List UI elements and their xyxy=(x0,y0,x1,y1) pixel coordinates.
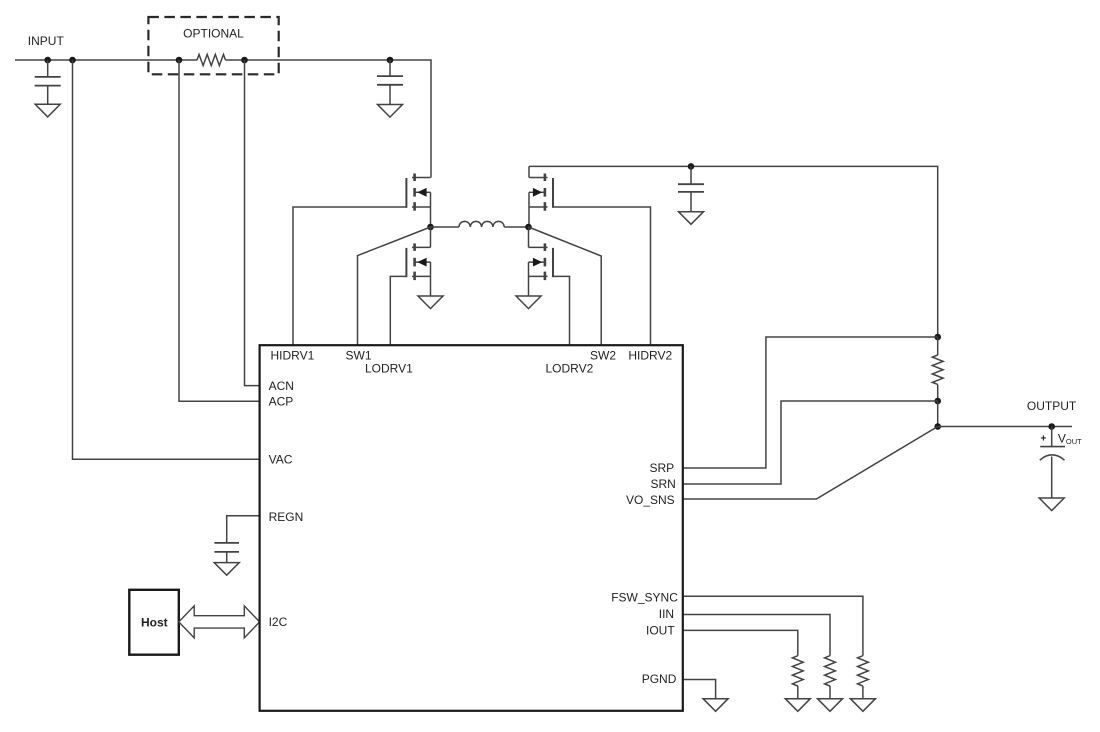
svg-text:LODRV1: LODRV1 xyxy=(365,362,413,376)
svg-text:VO_SNS: VO_SNS xyxy=(626,493,675,507)
wire : HIDRV1 gate wire xyxy=(293,207,406,345)
ground (Q3) xyxy=(418,296,443,309)
IC U1 box xyxy=(260,345,683,711)
wire : FSW_SYNC to resistor xyxy=(683,596,863,655)
wire : Q4 source down xyxy=(528,262,530,296)
wire : Q1 source to SW1 node xyxy=(430,192,432,227)
node : divider top xyxy=(934,334,941,341)
svg-text:IOUT: IOUT xyxy=(646,623,675,637)
svg-text:ACN: ACN xyxy=(269,379,294,393)
ground (R4) xyxy=(818,699,843,712)
svg-text:OPTIONAL: OPTIONAL xyxy=(183,26,244,40)
svg-text:HIDRV1: HIDRV1 xyxy=(271,348,315,362)
wire : top output rail xyxy=(529,166,938,337)
wire : Q2 source to SW2 node xyxy=(528,192,530,227)
node : resistor right xyxy=(241,57,248,64)
wire : SRP xyxy=(683,337,938,468)
svg-text:INPUT: INPUT xyxy=(28,34,65,48)
node : resistor left xyxy=(176,57,183,64)
transistor Q2 (top-right NFET, mirrored) xyxy=(528,166,530,177)
capacitor C2 xyxy=(389,60,391,76)
node : VOUT node xyxy=(1048,423,1055,430)
svg-text:SRP: SRP xyxy=(650,461,675,475)
wire : VAC from input node B xyxy=(73,60,260,459)
host box xyxy=(129,590,179,655)
resistor R2 (divider) xyxy=(937,337,939,355)
node SW2 xyxy=(525,224,532,231)
resistor R1 (optional) xyxy=(197,54,226,65)
svg-text:SW1: SW1 xyxy=(346,348,372,362)
svg-text:+: + xyxy=(1041,434,1047,445)
svg-text:IIN: IIN xyxy=(659,607,674,621)
node : divider bottom xyxy=(934,398,941,405)
source VOUT (polarized cap) xyxy=(1051,427,1053,447)
ground (PGND) xyxy=(703,699,728,712)
node : cap2 node xyxy=(387,57,394,64)
ground (R3) xyxy=(785,699,810,712)
wire : IOUT to resistor xyxy=(683,630,798,655)
svg-text:ACP: ACP xyxy=(269,395,294,409)
node : input node A xyxy=(44,57,51,64)
wire : VO_SNS diagonal xyxy=(683,427,938,500)
capacitor C4 (REGN) xyxy=(214,542,239,544)
wire : SRN xyxy=(683,401,938,484)
wire : SW1 to pin (diagonal) xyxy=(358,227,431,345)
svg-text:I2C: I2C xyxy=(269,615,288,629)
svg-text:REGN: REGN xyxy=(269,510,304,524)
wire : Q3 source down xyxy=(430,262,432,296)
svg-text:VAC: VAC xyxy=(269,453,293,467)
svg-text:FSW_SYNC: FSW_SYNC xyxy=(611,590,678,604)
node : output node xyxy=(934,423,941,430)
wire : ACP from resistor left node xyxy=(179,60,260,401)
I2C double arrow xyxy=(179,606,260,638)
node SW1 xyxy=(427,224,434,231)
wire : input rail xyxy=(15,59,197,61)
wire : REGN xyxy=(227,516,260,543)
resistor R5 (FSW_SYNC) xyxy=(858,656,869,686)
ground (C2) xyxy=(378,105,403,118)
wire : output line xyxy=(938,426,1072,428)
wire : SW2 to pin (diagonal) xyxy=(529,227,602,345)
wire : ACN from resistor right node xyxy=(245,60,260,386)
wire : PGND xyxy=(683,680,716,699)
wire : IIN to resistor xyxy=(683,615,830,656)
resistor R3 (IOUT) xyxy=(792,656,803,686)
svg-text:OUTPUT: OUTPUT xyxy=(1027,399,1077,413)
svg-text:LODRV2: LODRV2 xyxy=(546,362,594,376)
svg-text:SRN: SRN xyxy=(650,477,675,491)
svg-text:PGND: PGND xyxy=(642,672,677,686)
ground (input cap) xyxy=(35,104,60,117)
ground (C3) xyxy=(679,212,704,225)
capacitor C1 (input) xyxy=(47,60,49,77)
inductor L1 xyxy=(431,226,460,228)
transistor Q4 (bottom-right NFET, mirrored) xyxy=(528,227,530,247)
optional dashed box xyxy=(148,17,278,74)
wire : input rail right of resistor xyxy=(226,60,432,178)
ground (VOUT) xyxy=(1039,498,1064,511)
ground (R5) xyxy=(850,699,875,712)
wire : LODRV2 gate wire xyxy=(553,276,570,345)
capacitor C3 (rail) xyxy=(690,166,692,184)
transistor Q1 (top-left NFET) xyxy=(413,174,416,182)
resistor R4 (IIN) xyxy=(825,656,836,686)
wire : divider to output node xyxy=(937,401,939,427)
ground (Q4) xyxy=(516,296,541,309)
wire : HIDRV2 gate wire xyxy=(553,207,651,345)
node : rail cap node xyxy=(688,163,695,170)
svg-text:SW2: SW2 xyxy=(590,348,616,362)
wire : LODRV1 gate wire xyxy=(390,276,406,345)
svg-text:HIDRV2: HIDRV2 xyxy=(628,348,672,362)
ground (C4) xyxy=(214,563,239,576)
svg-text:Host: Host xyxy=(141,615,168,629)
transistor Q3 (bottom-left NFET) xyxy=(430,227,432,247)
node : input node B xyxy=(69,57,76,64)
